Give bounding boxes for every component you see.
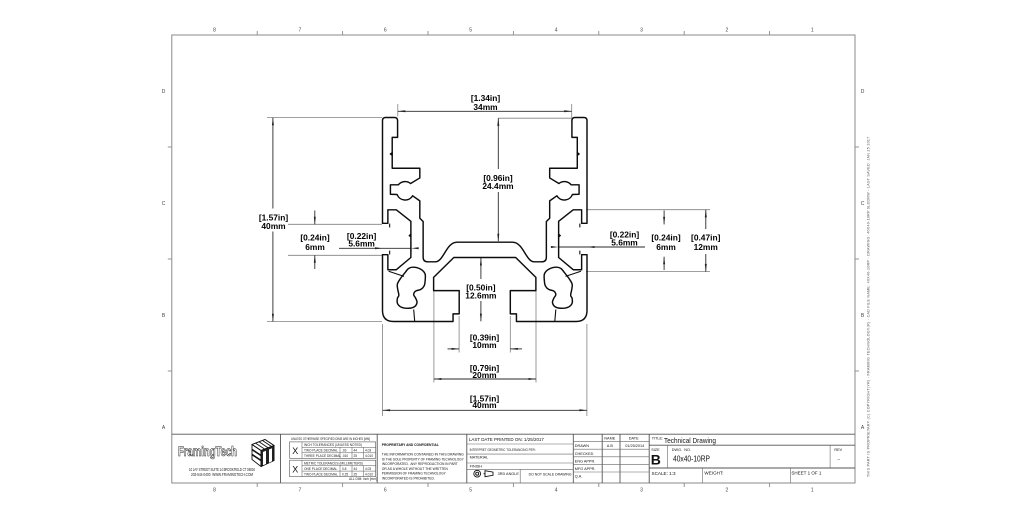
svg-text:6: 6 <box>384 28 387 34</box>
svg-text:Technical Drawing: Technical Drawing <box>664 436 716 445</box>
svg-text:FINISH: FINISH <box>470 464 483 468</box>
svg-text:5: 5 <box>469 28 472 34</box>
svg-text:SHEET 1 OF 1: SHEET 1 OF 1 <box>791 470 821 475</box>
svg-text:34mm: 34mm <box>473 102 497 112</box>
svg-text:44: 44 <box>354 467 358 471</box>
svg-text:25: 25 <box>354 454 358 458</box>
svg-text:40x40-10RP: 40x40-10RP <box>673 455 710 464</box>
svg-text:X: X <box>292 464 298 474</box>
svg-text:LAST DATE PRINTED ON: 1/25/201: LAST DATE PRINTED ON: 1/25/2017 <box>469 437 544 442</box>
svg-text:4: 4 <box>555 488 558 494</box>
svg-text:25: 25 <box>354 473 358 477</box>
svg-text:.03: .03 <box>342 449 347 453</box>
svg-text:0.25: 0.25 <box>342 473 348 477</box>
svg-text:4.03: 4.03 <box>365 449 371 453</box>
svg-text:TWO PLACE DECIMAL: TWO PLACE DECIMAL <box>304 473 338 477</box>
svg-text:FramingTech: FramingTech <box>178 443 237 459</box>
svg-text:.010: .010 <box>342 454 348 458</box>
svg-text:CHECKED: CHECKED <box>575 452 594 456</box>
svg-text:7: 7 <box>299 488 302 494</box>
svg-text:5.6mm: 5.6mm <box>348 239 375 249</box>
svg-text:ALL DIM: inch [mm]: ALL DIM: inch [mm] <box>349 477 377 481</box>
svg-text:3RD ANGLE: 3RD ANGLE <box>498 472 520 476</box>
svg-text:INCORPORATED. ANY REPRODUCTIO: INCORPORATED. ANY REPRODUCTION IN PART <box>382 462 458 466</box>
svg-text:SCALE: 1:3: SCALE: 1:3 <box>652 471 676 476</box>
svg-text:IS THE SOLE PROPERTY OF FRAMIN: IS THE SOLE PROPERTY OF FRAMING TECHNOLO… <box>382 457 465 461</box>
svg-text:INCORPORATED IS PROHIBITED.: INCORPORATED IS PROHIBITED. <box>382 477 435 481</box>
svg-text:DATE: DATE <box>629 437 639 441</box>
svg-text:8: 8 <box>213 28 216 34</box>
svg-text:B: B <box>651 452 661 468</box>
svg-text:D: D <box>861 89 865 95</box>
svg-text:–: – <box>838 457 841 462</box>
svg-text:5: 5 <box>469 488 472 494</box>
svg-text:NAME: NAME <box>604 437 615 441</box>
svg-text:4.010: 4.010 <box>365 473 373 477</box>
svg-text:5.6mm: 5.6mm <box>611 238 638 248</box>
svg-text:ONE PLACE DECIMAL: ONE PLACE DECIMAL <box>304 467 338 471</box>
svg-text:6mm: 6mm <box>305 242 325 252</box>
svg-text:OR AS A WHOLE WITHOUT THE WRIT: OR AS A WHOLE WITHOUT THE WRITTEN <box>382 467 449 471</box>
svg-text:WEIGHT:: WEIGHT: <box>704 470 723 475</box>
svg-text:3: 3 <box>640 488 643 494</box>
svg-text:3: 3 <box>640 28 643 34</box>
svg-text:C: C <box>861 201 865 207</box>
svg-text:TWO PLACE DECIMAL: TWO PLACE DECIMAL <box>304 449 338 453</box>
svg-text:PERMISSION OF FRAMING TECHNOLO: PERMISSION OF FRAMING TECHNOLOGY <box>382 472 447 476</box>
svg-text:A.B: A.B <box>607 444 614 448</box>
svg-text:ENG APPR.: ENG APPR. <box>575 459 595 463</box>
svg-text:12mm: 12mm <box>694 242 718 252</box>
svg-text:01/25/2014: 01/25/2014 <box>625 444 644 448</box>
svg-text:4: 4 <box>555 28 558 34</box>
svg-text:10mm: 10mm <box>472 340 496 350</box>
svg-text:REV: REV <box>834 448 842 452</box>
svg-text:X: X <box>292 446 298 456</box>
svg-text:UNLESS OTHERWISE SPECIFIED DIM: UNLESS OTHERWISE SPECIFIED DIMS ARE IN I… <box>291 437 370 441</box>
svg-text:METRIC TOLERANCES (MILLIMETERS: METRIC TOLERANCES (MILLIMETERS) <box>304 462 363 466</box>
svg-text:203-544-0400 WWW.FRAMINGTECH.: 203-544-0400 WWW.FRAMINGTECH.COM <box>191 472 253 477</box>
svg-text:2: 2 <box>726 28 729 34</box>
svg-text:44: 44 <box>354 449 358 453</box>
svg-text:7: 7 <box>299 28 302 34</box>
svg-text:INCH TOLERANCES (UNLESS NOTED): INCH TOLERANCES (UNLESS NOTED) <box>304 443 362 447</box>
svg-text:40mm: 40mm <box>261 221 285 231</box>
svg-text:THE INFORMATION CONTAINED IN T: THE INFORMATION CONTAINED IN THIS DRAWIN… <box>382 453 464 457</box>
svg-text:2: 2 <box>726 488 729 494</box>
svg-text:8: 8 <box>213 488 216 494</box>
svg-text:1: 1 <box>811 28 814 34</box>
svg-text:40mm: 40mm <box>472 400 496 410</box>
svg-text:4.010: 4.010 <box>365 454 373 458</box>
svg-text:INTERPRET GEOMETRIC TOLERANCIN: INTERPRET GEOMETRIC TOLERANCING PER: <box>470 448 536 452</box>
svg-text:6: 6 <box>384 488 387 494</box>
svg-text:C: C <box>162 201 166 207</box>
svg-text:DO NOT SCALE DRAWING: DO NOT SCALE DRAWING <box>529 473 572 477</box>
svg-text:24.4mm: 24.4mm <box>482 181 513 191</box>
svg-text:DRAWN: DRAWN <box>575 444 589 448</box>
svg-text:Q.A.: Q.A. <box>575 475 583 479</box>
svg-text:MFG APPR.: MFG APPR. <box>575 467 596 471</box>
svg-text:TITLE:: TITLE: <box>652 436 663 440</box>
svg-text:12.6mm: 12.6mm <box>465 290 496 300</box>
svg-text:THIS PART IS PROPRIETARY (C) C: THIS PART IS PROPRIETARY (C) COPYRIGHT(Y… <box>867 136 871 477</box>
svg-text:4.03: 4.03 <box>365 467 371 471</box>
svg-text:0.8: 0.8 <box>342 467 347 471</box>
svg-text:D: D <box>162 89 166 95</box>
svg-text:6mm: 6mm <box>656 242 676 252</box>
svg-text:20mm: 20mm <box>472 370 496 380</box>
svg-text:PROPRIETARY AND CONFIDENTIAL: PROPRIETARY AND CONFIDENTIAL <box>382 443 440 447</box>
svg-text:1: 1 <box>811 488 814 494</box>
svg-text:THREE PLACE DECIMAL: THREE PLACE DECIMAL <box>304 454 341 458</box>
svg-text:MATERIAL: MATERIAL <box>470 456 489 460</box>
svg-text:DWG. NO.: DWG. NO. <box>672 448 691 452</box>
